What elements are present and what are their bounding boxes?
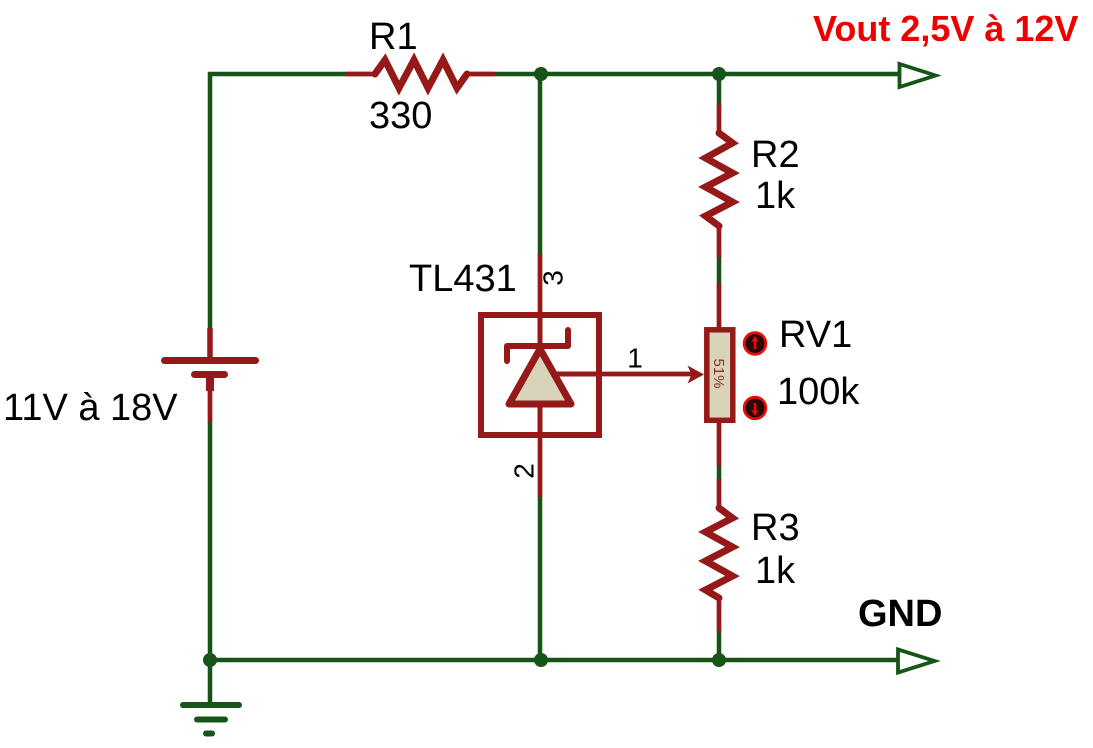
svg-text:100k: 100k (777, 371, 860, 413)
svg-text:TL431: TL431 (409, 258, 517, 300)
svg-text:Vout 2,5V à 12V: Vout 2,5V à 12V (813, 8, 1078, 49)
svg-text:1: 1 (627, 343, 643, 374)
svg-text:330: 330 (369, 95, 432, 137)
svg-text:R2: R2 (751, 134, 800, 176)
svg-text:GND: GND (858, 593, 942, 635)
svg-text:3: 3 (538, 270, 569, 286)
svg-text:51%: 51% (710, 358, 727, 388)
svg-text:RV1: RV1 (779, 314, 852, 356)
svg-text:1k: 1k (755, 550, 796, 592)
svg-text:2: 2 (509, 463, 540, 479)
svg-text:11V à 18V: 11V à 18V (3, 387, 178, 429)
svg-text:R1: R1 (369, 16, 418, 58)
svg-text:1k: 1k (755, 175, 796, 217)
svg-text:R3: R3 (751, 507, 800, 549)
